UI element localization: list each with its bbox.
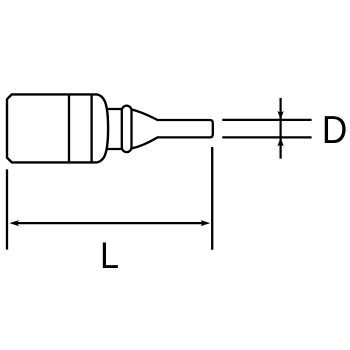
D dimension arrow top bbox=[277, 111, 283, 120]
L dimension arrow left bbox=[9, 220, 19, 226]
bell taper top edge bbox=[132, 110, 158, 121]
neck top edge bbox=[106, 108, 123, 110]
socket body bbox=[7, 94, 108, 162]
svg-text:L: L bbox=[100, 235, 119, 276]
body band line 2 bbox=[90, 94, 92, 162]
D extension line bottom bbox=[222, 136, 311, 138]
neck bottom edge bbox=[106, 148, 123, 150]
bell taper bottom edge bbox=[132, 137, 158, 148]
svg-text:D: D bbox=[322, 109, 347, 152]
D extension line top bbox=[222, 119, 311, 121]
D dimension arrow bottom bbox=[277, 138, 283, 147]
hex shank bbox=[157, 120, 213, 137]
L dimension line bbox=[15, 222, 204, 224]
L extension line left bbox=[6, 169, 8, 249]
L extension line right bbox=[211, 147, 213, 250]
collar ring bbox=[122, 106, 132, 153]
D dimension line bbox=[280, 98, 282, 159]
body band line 1 bbox=[68, 94, 70, 162]
L dimension arrow right bbox=[201, 220, 211, 226]
